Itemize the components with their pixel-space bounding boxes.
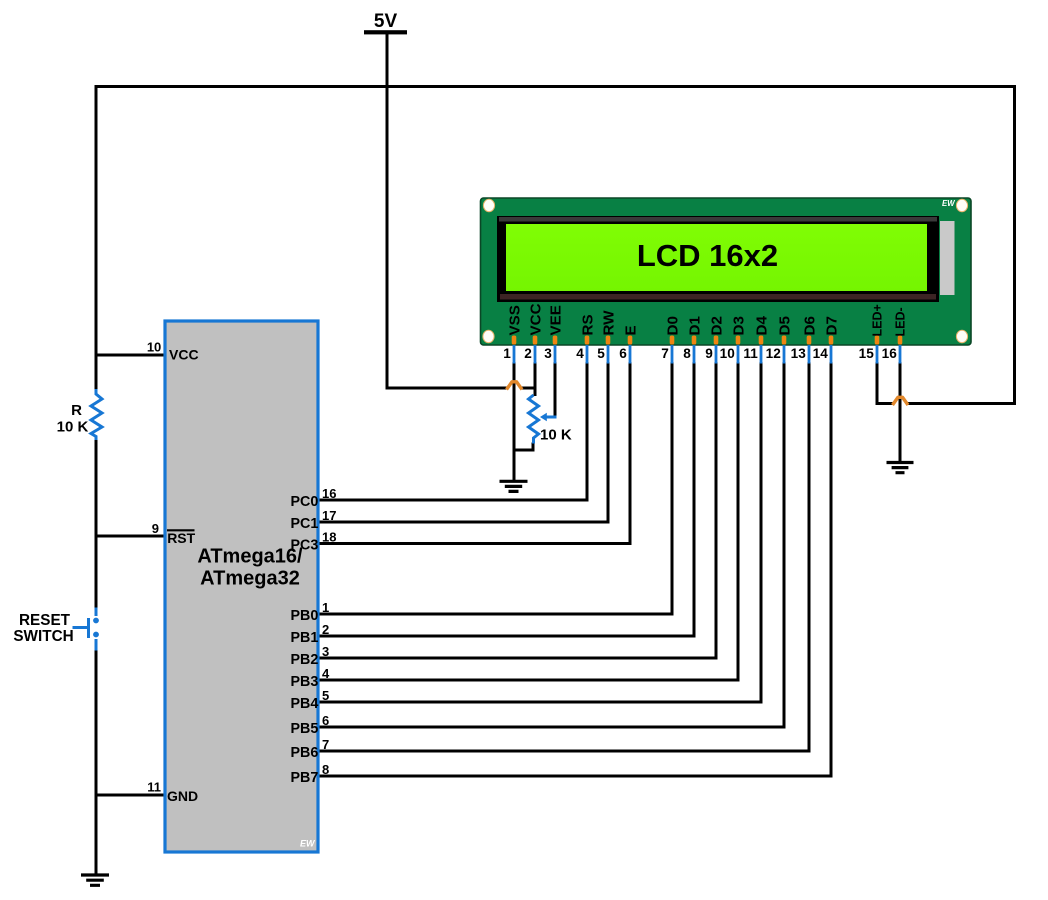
- svg-text:VCC: VCC: [169, 347, 199, 363]
- svg-text:PB7: PB7: [290, 770, 318, 786]
- svg-text:EW: EW: [300, 839, 316, 849]
- svg-text:PB2: PB2: [290, 652, 318, 668]
- svg-text:D2: D2: [708, 316, 725, 335]
- svg-text:PC1: PC1: [290, 516, 318, 532]
- svg-text:GND: GND: [167, 788, 198, 804]
- svg-text:1: 1: [322, 600, 329, 615]
- svg-text:D7: D7: [823, 316, 840, 335]
- svg-text:D3: D3: [730, 316, 747, 335]
- svg-text:14: 14: [813, 346, 829, 361]
- svg-text:15: 15: [859, 346, 875, 361]
- svg-text:D5: D5: [776, 316, 793, 336]
- svg-text:VSS: VSS: [506, 305, 523, 335]
- svg-text:LCD 16x2: LCD 16x2: [637, 238, 778, 273]
- svg-text:9: 9: [705, 346, 713, 361]
- svg-text:5: 5: [597, 346, 605, 361]
- svg-text:13: 13: [791, 346, 807, 361]
- svg-text:5V: 5V: [374, 11, 398, 32]
- svg-text:RESET: RESET: [19, 612, 71, 629]
- svg-text:D6: D6: [801, 316, 818, 335]
- svg-text:PB5: PB5: [290, 721, 318, 737]
- svg-text:8: 8: [683, 346, 691, 361]
- svg-text:PC3: PC3: [290, 538, 318, 554]
- svg-text:RS: RS: [579, 314, 596, 335]
- svg-text:11: 11: [147, 780, 161, 795]
- svg-text:D1: D1: [686, 316, 703, 336]
- svg-text:10 K: 10 K: [540, 427, 572, 444]
- svg-text:2: 2: [322, 622, 329, 637]
- svg-text:4: 4: [576, 346, 584, 361]
- svg-text:LED-: LED-: [894, 307, 908, 336]
- svg-text:LED+: LED+: [871, 304, 885, 336]
- svg-text:SWITCH: SWITCH: [13, 628, 73, 645]
- svg-text:11: 11: [743, 346, 758, 361]
- svg-text:1: 1: [503, 346, 511, 361]
- svg-text:E: E: [622, 325, 639, 335]
- svg-text:5: 5: [322, 688, 329, 703]
- svg-text:PB4: PB4: [290, 696, 318, 712]
- svg-text:PB3: PB3: [290, 674, 318, 690]
- svg-text:PB1: PB1: [290, 630, 318, 646]
- svg-text:6: 6: [322, 713, 329, 728]
- svg-text:PB0: PB0: [290, 608, 318, 624]
- svg-text:VCC: VCC: [527, 303, 544, 335]
- svg-text:7: 7: [661, 346, 669, 361]
- svg-text:RW: RW: [600, 310, 617, 336]
- svg-text:2: 2: [524, 346, 532, 361]
- svg-text:12: 12: [766, 346, 782, 361]
- svg-text:10 K: 10 K: [57, 419, 89, 436]
- svg-text:D4: D4: [753, 316, 770, 336]
- svg-text:VEE: VEE: [547, 305, 564, 335]
- svg-text:16: 16: [882, 346, 898, 361]
- svg-text:7: 7: [322, 737, 329, 752]
- svg-text:10: 10: [147, 340, 161, 355]
- svg-text:3: 3: [322, 644, 329, 659]
- svg-text:10: 10: [720, 346, 735, 361]
- svg-text:PC0: PC0: [290, 494, 318, 510]
- svg-text:6: 6: [619, 346, 627, 361]
- svg-text:9: 9: [152, 521, 159, 536]
- svg-text:R: R: [71, 402, 82, 419]
- svg-text:RST: RST: [167, 530, 195, 546]
- svg-text:4: 4: [322, 666, 330, 681]
- svg-text:ATmega16/: ATmega16/: [197, 546, 303, 568]
- svg-text:16: 16: [322, 486, 336, 501]
- svg-text:EW: EW: [942, 199, 955, 208]
- svg-text:3: 3: [544, 346, 552, 361]
- svg-text:8: 8: [322, 762, 329, 777]
- svg-text:PB6: PB6: [290, 745, 318, 761]
- svg-text:D0: D0: [664, 316, 681, 335]
- svg-text:ATmega32: ATmega32: [200, 568, 300, 590]
- svg-text:17: 17: [322, 508, 336, 523]
- svg-text:18: 18: [322, 530, 336, 545]
